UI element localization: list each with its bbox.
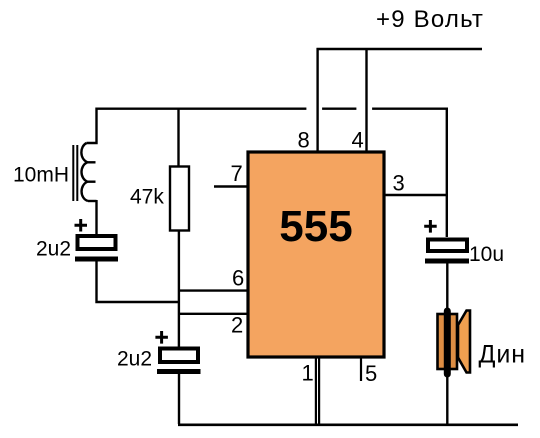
- speaker Дин magnet body: [438, 314, 458, 369]
- capacitor C2 2u2 bottom plate: [157, 369, 201, 374]
- wire pin 6 horizontal: [179, 289, 248, 291]
- inductor L1 coil 10mH: [81, 143, 96, 201]
- svg-text:47k: 47k: [130, 186, 164, 209]
- wire pin 4 vertical: [365, 48, 367, 151]
- resistor R1 47k body: [170, 167, 189, 231]
- capacitor C2 2u2 top plate: [160, 349, 198, 363]
- svg-text:7: 7: [231, 161, 243, 186]
- wire 47k bottom lead down to C2: [178, 231, 180, 347]
- capacitor C3 10u top plate: [428, 240, 467, 252]
- wire inductor bottom lead: [95, 200, 97, 234]
- wire bottom ground rail: [178, 423, 518, 426]
- svg-text:5: 5: [365, 361, 377, 386]
- wire feedback horizontal (pin3 to inductor) with crossover gaps: [96, 107, 448, 109]
- capacitor C3 10u bottom plate: [425, 259, 469, 264]
- svg-text:2u2: 2u2: [36, 238, 71, 261]
- svg-text:10u: 10u: [469, 243, 504, 266]
- svg-text:Дин: Дин: [479, 341, 526, 369]
- svg-text:1: 1: [302, 361, 314, 386]
- speaker voice-coil bar: [444, 311, 451, 374]
- op-amp U1 555 timer IC body: [248, 152, 384, 357]
- svg-text:+9 Вольт: +9 Вольт: [376, 6, 484, 33]
- svg-text:2u2: 2u2: [117, 348, 152, 371]
- wire pin 3 horizontal: [385, 194, 448, 196]
- wire inductor top lead: [87, 108, 97, 144]
- svg-text:555: 555: [279, 202, 352, 251]
- wire C1 to node junction: [97, 262, 180, 303]
- capacitor C1 2u2 plus sign: [75, 219, 88, 232]
- speaker cone: [458, 311, 470, 373]
- wire top rail VCC: [317, 48, 483, 50]
- svg-text:8: 8: [298, 128, 310, 153]
- capacitor C3 10u plus sign: [424, 220, 437, 233]
- wire speaker to ground rail: [446, 374, 448, 424]
- svg-text:10mH: 10mH: [13, 164, 69, 187]
- svg-text:2: 2: [231, 313, 243, 338]
- wire pin 2 horizontal: [179, 313, 248, 315]
- wire pin 7 stub: [214, 185, 247, 187]
- svg-text:3: 3: [393, 171, 405, 196]
- svg-text:6: 6: [232, 266, 244, 291]
- wire pin 8 vertical: [316, 48, 318, 151]
- wire pin 1 doubled vertical to ground rail: [316, 358, 319, 424]
- wire C2 bottom to ground rail: [178, 374, 180, 424]
- wire right vertical from feedback to 10u cap: [446, 108, 448, 238]
- capacitor C1 2u2 bottom plate: [75, 257, 118, 262]
- capacitor C1 2u2 top plate: [78, 236, 116, 249]
- inductor core bars: [73, 145, 77, 201]
- svg-text:4: 4: [352, 128, 364, 153]
- capacitor C2 2u2 plus sign: [155, 331, 168, 344]
- wire 10u to speaker: [446, 264, 448, 313]
- wire pin 5 stub: [360, 358, 362, 381]
- wire 47k top lead: [177, 108, 179, 167]
